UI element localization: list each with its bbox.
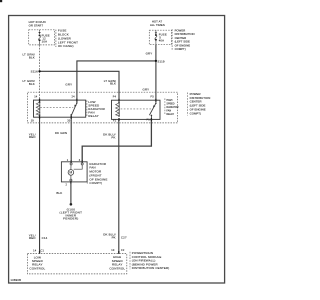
svg-text:RED: RED	[29, 236, 36, 240]
svg-text:COMPT): COMPT)	[175, 47, 186, 51]
svg-text:C2: C2	[121, 248, 125, 252]
svg-text:RELAY: RELAY	[88, 114, 99, 118]
svg-text:CONTROL: CONTROL	[29, 266, 45, 270]
svg-text:F4: F4	[113, 95, 117, 99]
svg-text:F5: F5	[151, 95, 155, 99]
svg-text:F1: F1	[146, 118, 150, 122]
svg-text:RELAY: RELAY	[166, 113, 174, 116]
svg-text:DISTRIBUTION: DISTRIBUTION	[175, 32, 195, 36]
svg-text:OF ENGINE: OF ENGINE	[175, 44, 191, 48]
svg-text:14: 14	[34, 94, 38, 98]
svg-text:BLK: BLK	[29, 56, 35, 60]
svg-text:14: 14	[33, 249, 37, 253]
svg-text:M: M	[69, 171, 72, 175]
svg-text:CONTROL: CONTROL	[109, 266, 125, 270]
svg-text:19: 19	[31, 119, 35, 123]
svg-text:DISTRIBUTION CENTER): DISTRIBUTION CENTER)	[132, 266, 170, 270]
svg-text:CENTER: CENTER	[175, 36, 187, 40]
svg-text:GRY: GRY	[65, 83, 72, 87]
svg-text:BLK: BLK	[56, 191, 62, 195]
svg-text:OR START: OR START	[29, 24, 44, 28]
svg-text:BLK: BLK	[29, 82, 35, 86]
svg-text:PK: PK	[112, 236, 116, 240]
svg-text:POWER: POWER	[175, 28, 186, 32]
svg-text:C14: C14	[42, 236, 48, 240]
svg-text:ALL TIMES: ALL TIMES	[150, 23, 165, 27]
svg-text:20: 20	[67, 118, 71, 122]
svg-text:C1: C1	[41, 249, 45, 253]
svg-text:COMPT): COMPT)	[190, 111, 202, 115]
svg-text:DK GRN: DK GRN	[55, 131, 67, 135]
svg-text:24: 24	[71, 94, 75, 98]
svg-text:FENDER): FENDER)	[63, 216, 78, 220]
svg-text:COMPT): COMPT)	[89, 181, 102, 185]
svg-text:10A: 10A	[42, 40, 48, 44]
svg-text:S116: S116	[31, 70, 38, 74]
svg-text:BLK: BLK	[110, 82, 116, 86]
svg-text:(LEFT SIDE: (LEFT SIDE	[175, 40, 190, 44]
svg-text:GRY: GRY	[143, 87, 150, 91]
svg-text:RED: RED	[29, 135, 36, 139]
svg-text:40A: 40A	[159, 39, 165, 43]
svg-text:S119: S119	[157, 60, 164, 64]
svg-text:F2: F2	[113, 118, 117, 122]
svg-text:PK: PK	[111, 135, 115, 139]
svg-text:13890B: 13890B	[10, 278, 21, 282]
svg-text:OF DASH): OF DASH)	[58, 44, 74, 48]
svg-text:GRY: GRY	[146, 52, 153, 56]
svg-text:C27: C27	[121, 236, 127, 240]
svg-text:10: 10	[111, 248, 115, 252]
